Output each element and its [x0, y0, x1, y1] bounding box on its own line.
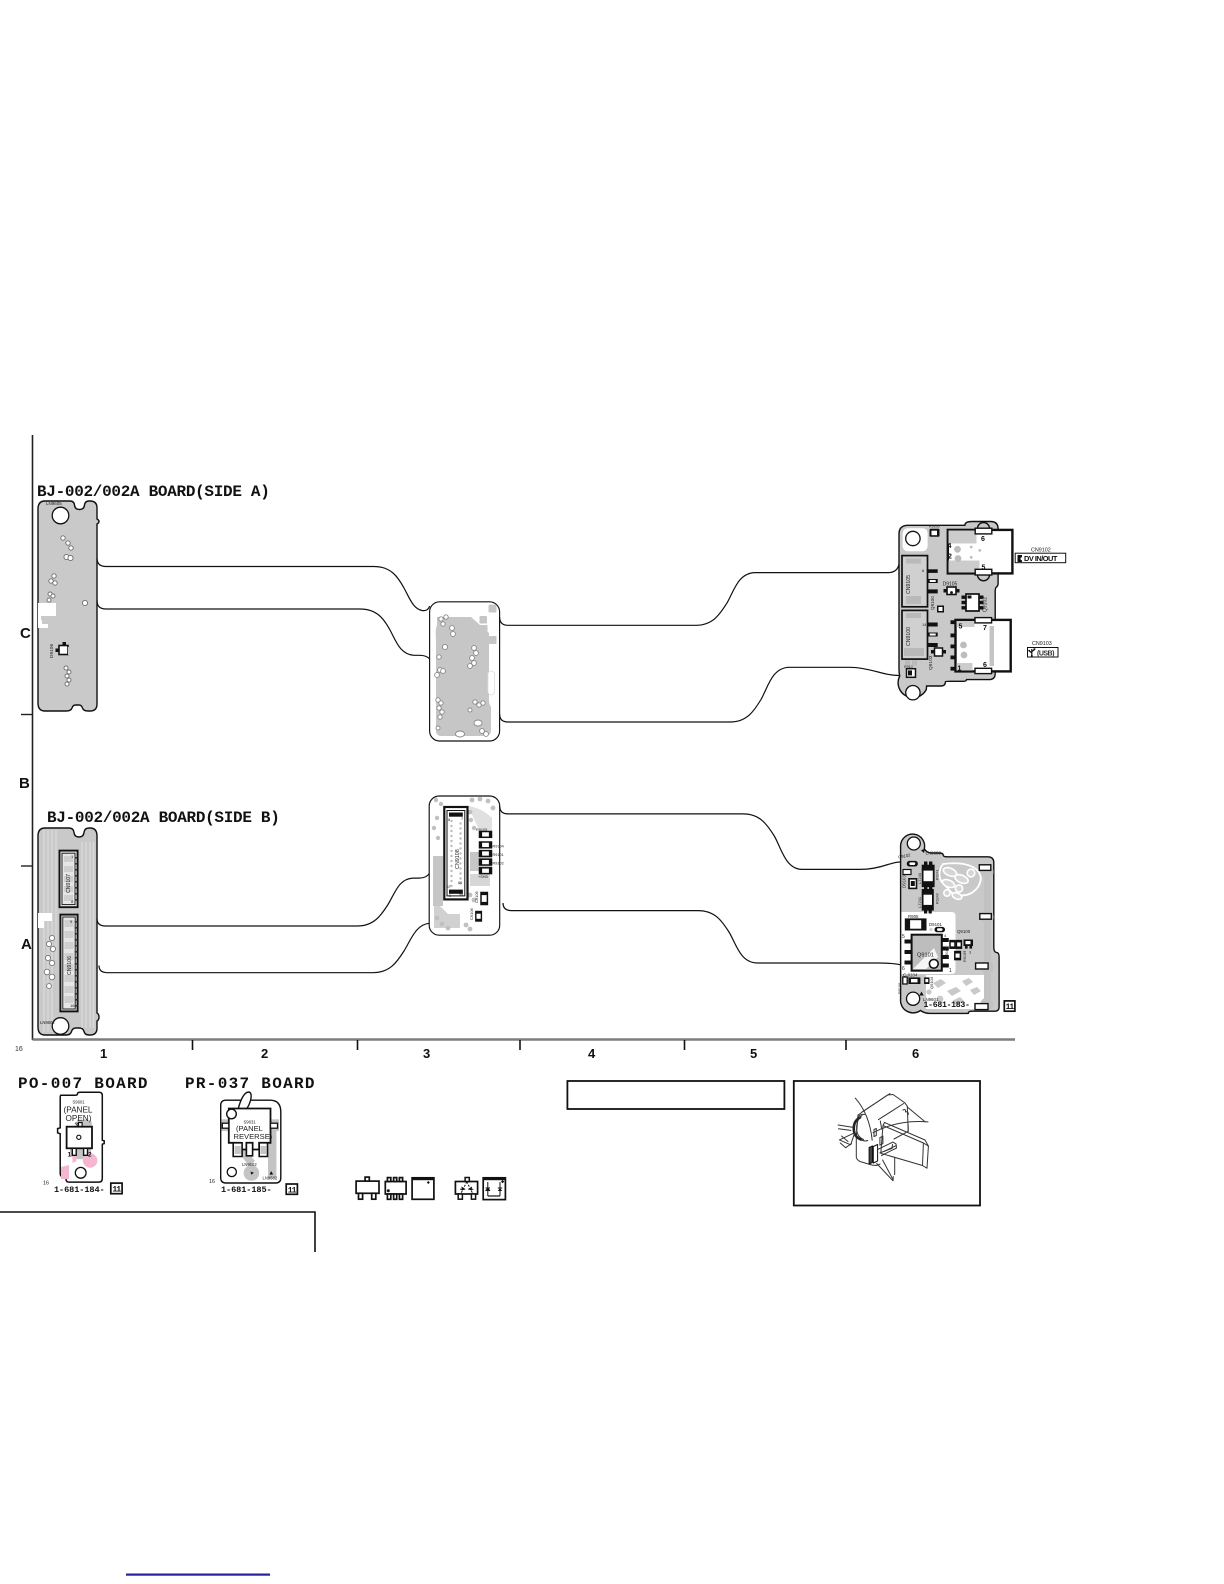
wire flex A bottom edge: [503, 903, 901, 965]
diode D9101: [929, 922, 945, 932]
lower body curve: [870, 1164, 880, 1165]
resistor R9106 chip: [903, 977, 907, 984]
vertical leader: [894, 1157, 896, 1174]
svg-text:Q9103: Q9103: [928, 655, 934, 670]
left wedge strap: [839, 1133, 854, 1145]
white zone around top mounting hole: [903, 528, 928, 551]
svg-text:Q9100: Q9100: [957, 929, 971, 934]
svg-text:57: 57: [447, 885, 451, 889]
white island mid left for components: [902, 912, 956, 974]
svg-text:5: 5: [902, 934, 905, 940]
svg-text:4: 4: [588, 1046, 596, 1061]
plated pad right 3: [976, 963, 989, 969]
wire flex B top edge: [97, 874, 429, 927]
svg-text:S9601: S9601: [73, 1100, 86, 1105]
PR-037 gray trace pin to pad: [237, 1147, 255, 1166]
svg-text:1: 1: [100, 1046, 107, 1061]
svg-text:C9105: C9105: [474, 890, 479, 903]
staple clamp: [878, 1142, 897, 1155]
switch side tab left: [222, 1123, 229, 1128]
capacitor C9104 body: [908, 977, 920, 984]
bottom ruler tick 4|5: [684, 1040, 686, 1050]
svg-text:PR-037 BOARD: PR-037 BOARD: [185, 1075, 316, 1093]
DV jack top mounting tab: [978, 523, 990, 529]
PO-007 gray trace from pin3: [77, 1120, 92, 1148]
gray pads row above bottom-left part: [905, 661, 910, 666]
DV jack bottom mounting tab: [978, 575, 990, 581]
svg-text:1: 1: [68, 1152, 72, 1159]
LCD panel slab: [881, 1126, 924, 1166]
svg-text:16: 16: [70, 1003, 75, 1008]
PR-037 gray band across: [222, 1119, 280, 1131]
left leader lines: [838, 1125, 852, 1127]
mounting hole LN9602: [52, 1018, 69, 1035]
IC Q9101: [902, 933, 952, 974]
svg-text:6: 6: [902, 966, 905, 972]
USB bottom tab: [975, 668, 992, 673]
wire flex C1 bottom edge: [97, 601, 430, 660]
PR-037 gray vertical trace right: [268, 1131, 276, 1179]
svg-text:BJ-002/002A BOARD(SIDE B): BJ-002/002A BOARD(SIDE B): [47, 809, 280, 827]
svg-text:1-681-185-: 1-681-185-: [221, 1185, 272, 1195]
svg-text:DV IN/OUT: DV IN/OUT: [1024, 554, 1058, 563]
CN9107 pin ticks: [75, 857, 78, 901]
svg-text:LN9682: LN9682: [263, 1176, 278, 1181]
CN9106 pin ticks: [75, 921, 78, 1007]
pads in bottom island: [926, 978, 981, 1005]
component R9100 top: [929, 525, 940, 537]
resistor R9105: [476, 828, 492, 837]
svg-text:11: 11: [288, 1187, 297, 1196]
connector CN9105: [902, 556, 938, 607]
resistor R9103: [480, 859, 504, 865]
label box USB: [1028, 648, 1059, 658]
resistor R9102: [478, 868, 492, 879]
board BJ-002 side B right section outline: [901, 834, 1000, 1013]
svg-text:CN9100: CN9100: [906, 627, 912, 646]
PO-007 hole: [75, 1167, 86, 1178]
switch legs with pads: [233, 1143, 242, 1157]
plated pad right 4: [975, 1004, 988, 1010]
revision box 11 on side B right: [1004, 1001, 1015, 1011]
centre section copper pour: [436, 617, 491, 736]
label LN9600: [921, 849, 941, 856]
svg-text:R905: R905: [908, 914, 919, 919]
transistor D9106: [49, 642, 74, 658]
capacitor C9105: [474, 890, 487, 904]
board BJ-002 side A centre section outline: [430, 602, 500, 741]
svg-text:CN9108: CN9108: [455, 849, 461, 869]
svg-text:16: 16: [15, 1046, 23, 1053]
transistor Q9104: [924, 977, 929, 984]
PO-007 pink pad circle: [83, 1153, 98, 1168]
bottom ruler tick 1|2: [192, 1040, 194, 1050]
svg-text:R910: R910: [904, 665, 913, 669]
svg-text:6: 6: [981, 536, 985, 543]
svg-text:2: 2: [948, 554, 952, 561]
left ruler tick C/B: [21, 714, 33, 716]
wire flex C2 top edge: [500, 564, 899, 625]
resistor R9104: [480, 842, 504, 849]
board A-left inner step pad: [41, 616, 49, 624]
frame corner line bottom-left: [0, 1212, 315, 1252]
svg-text:11: 11: [112, 1186, 121, 1195]
copper clearance outline top right island: [939, 863, 980, 895]
PR-037 switch lever petal: [238, 1092, 251, 1113]
svg-text:R9240: R9240: [936, 893, 940, 904]
svg-text:R9100: R9100: [929, 525, 940, 529]
connector CN9108: [444, 807, 467, 899]
switch pin 1: [72, 1148, 76, 1155]
PO-007 pink corner region: [61, 1165, 69, 1179]
svg-text:11: 11: [1006, 1003, 1015, 1012]
pads in top right island: [941, 866, 975, 901]
footer blue rule: [126, 1574, 270, 1576]
svg-text:6: 6: [912, 1046, 919, 1061]
svg-text:CN9105: CN9105: [906, 575, 912, 594]
wire flex C1 top edge: [97, 558, 430, 611]
connector bracket dark bars: [869, 1146, 872, 1164]
diode D9103: [902, 875, 917, 889]
svg-text:L7240: L7240: [917, 872, 922, 884]
spare note rectangle: [567, 1081, 784, 1109]
svg-text:CN9102: CN9102: [1031, 548, 1051, 554]
package symbol SOT-23: [356, 1177, 379, 1199]
capacitor C9106: [469, 907, 481, 921]
figure box: [794, 1081, 980, 1206]
svg-text:14: 14: [922, 622, 927, 627]
white cutout left edge side B board: [38, 913, 52, 928]
transistor Q9102: [962, 594, 989, 612]
svg-text:R9106: R9106: [898, 983, 902, 994]
long right arc: [873, 1122, 928, 1133]
mounting hole bottom: [906, 686, 920, 700]
svg-text:CN9103: CN9103: [1032, 641, 1052, 647]
revision box 11 PR-037: [286, 1184, 297, 1194]
body top face inner lines: [862, 1094, 890, 1113]
lens barrel thick C: [854, 1118, 861, 1140]
board BJ-002 side B centre section outline: [429, 796, 500, 935]
svg-text:58: 58: [459, 893, 463, 897]
wire flex C2 bottom edge: [500, 667, 899, 722]
small part bottom left of right board: [904, 665, 916, 677]
inductor L7240: [917, 862, 940, 891]
mounting hole top left of side B right: [907, 837, 920, 850]
mounting hole top: [906, 531, 920, 545]
white strip under DV connector: [947, 543, 995, 561]
connector CN9103 USB jack outline: [951, 618, 1011, 674]
switch pin 2: [84, 1148, 88, 1155]
package symbol square pkg: [412, 1178, 434, 1200]
vias on side B left board: [44, 935, 55, 988]
scattered pads centre B: [432, 797, 496, 932]
vias on board A-left: [47, 536, 88, 686]
resistor R9107 chip: [955, 951, 967, 962]
board BJ-002 side A right section outline: [898, 522, 998, 698]
svg-text:2: 2: [261, 1046, 268, 1061]
bottom pointer triangle: [877, 1164, 894, 1181]
camera body outline: [858, 1095, 908, 1132]
svg-text:D9101: D9101: [929, 922, 942, 927]
PR-037 hole: [227, 1167, 236, 1176]
hinge line to panel: [907, 1107, 925, 1122]
svg-text:9: 9: [449, 894, 451, 898]
switch side tab right: [271, 1123, 278, 1128]
connector CN9106: [60, 915, 77, 1012]
bottom ruler tick 3|4: [519, 1040, 521, 1050]
bottom ruler tick 2|3: [357, 1040, 359, 1050]
transistor Q9103: [928, 648, 946, 670]
package symbol dual diode box: [481, 1178, 506, 1200]
svg-text:R9101: R9101: [493, 853, 504, 857]
svg-text:PO-007 BOARD: PO-007 BOARD: [18, 1075, 149, 1093]
swing arc: [855, 1098, 872, 1140]
svg-text:R9102: R9102: [493, 862, 504, 866]
svg-text:LN9682: LN9682: [242, 1162, 257, 1167]
package symbol dual diode SOT: [455, 1178, 477, 1200]
svg-text:Q9102: Q9102: [983, 597, 989, 612]
svg-text:3: 3: [969, 951, 971, 955]
board A-left white step cutout: [38, 603, 56, 628]
PO-007 gray blob under switch pins: [70, 1148, 91, 1159]
svg-text:CN9106: CN9106: [67, 956, 73, 975]
svg-text:1-681-184-: 1-681-184-: [54, 1185, 105, 1195]
svg-text:A: A: [21, 936, 32, 953]
svg-text:5: 5: [959, 624, 963, 631]
USB pin stubs: [951, 620, 957, 624]
centre B copper pour patches: [433, 856, 443, 906]
svg-text:Q9101: Q9101: [917, 953, 934, 959]
svg-text:LN9602: LN9602: [40, 1020, 55, 1025]
inductor L7241: [917, 890, 940, 914]
svg-text:LN9600: LN9600: [926, 851, 942, 856]
svg-text:R9241: R9241: [936, 869, 940, 880]
copper striping on side B left board: [44, 830, 94, 1032]
board PO-007 outline: [58, 1092, 105, 1182]
connector CN9102 DV jack outline: [948, 523, 1013, 581]
svg-text:2: 2: [88, 1152, 92, 1159]
svg-text:C9103: C9103: [945, 947, 949, 958]
USB top tab: [975, 618, 992, 623]
svg-text:4: 4: [948, 543, 952, 550]
plated pad right 2: [980, 914, 992, 920]
svg-text:5: 5: [750, 1046, 757, 1061]
switch S9631 body: [229, 1109, 271, 1150]
transistor Q9100b: [957, 929, 973, 955]
bottom ruler tick 5|6: [845, 1040, 847, 1050]
mounting hole LN9605: [52, 507, 69, 524]
copper square pads top right: [489, 605, 497, 613]
svg-text:R9107: R9107: [963, 951, 967, 962]
svg-text:1-681-183-: 1-681-183-: [924, 1001, 970, 1010]
wire flex A top edge (centre B to right B): [500, 806, 901, 869]
svg-text:R9104: R9104: [493, 845, 504, 849]
svg-text:Q9104: Q9104: [929, 976, 934, 989]
plated pad right 1: [979, 865, 991, 871]
transistor Q9100: [930, 596, 944, 613]
svg-text:16: 16: [43, 1181, 49, 1187]
svg-text:D9103: D9103: [902, 875, 907, 888]
capacitor C9102 body: [907, 861, 918, 867]
PO-007 pink trace pin1: [73, 1155, 77, 1163]
svg-text:7: 7: [461, 817, 463, 821]
svg-text:C: C: [20, 625, 31, 642]
svg-text:BJ-002/002A BOARD(SIDE A): BJ-002/002A BOARD(SIDE A): [37, 483, 270, 501]
svg-text:+SHD: +SHD: [478, 875, 488, 879]
resistor R9101: [480, 851, 504, 857]
board BJ-002 side A left section outline: [38, 501, 99, 711]
svg-text:1: 1: [958, 666, 962, 673]
label LN9601: [919, 992, 939, 1003]
svg-text:7: 7: [983, 625, 987, 632]
svg-text:B: B: [19, 775, 30, 792]
revision box 11 PO-007: [111, 1183, 122, 1194]
capacitor pair C9103: [945, 941, 961, 958]
small chip below C9102: [903, 870, 911, 875]
svg-text:60: 60: [458, 881, 462, 885]
wire flex B bottom edge: [99, 923, 429, 972]
svg-text:REVERSE): REVERSE): [234, 1132, 273, 1141]
svg-text:OPEN): OPEN): [66, 1114, 92, 1123]
package symbol SOT-26: [385, 1178, 406, 1200]
resistor R9105b: [906, 914, 926, 930]
vias on centre section: [435, 615, 489, 737]
svg-text:LN9605: LN9605: [46, 501, 62, 506]
centre tongue of switch: [246, 1143, 252, 1156]
switch body corner circle: [227, 1109, 237, 1119]
svg-text:(USB): (USB): [1037, 650, 1054, 657]
left margin ruler line: [32, 435, 34, 1040]
white slot pad right side: [488, 671, 495, 695]
gray trace bar right side with round pads: [984, 868, 991, 1006]
svg-text:CN9107: CN9107: [66, 874, 72, 893]
camcorder sketch: [838, 1094, 928, 1181]
bottom ruler line: [33, 1038, 1016, 1041]
board PR-037 outline: [221, 1100, 281, 1183]
connector CN9100: [902, 610, 938, 659]
svg-text:3: 3: [423, 1046, 430, 1061]
svg-text:C9106: C9106: [469, 907, 474, 920]
diode D9105: [943, 582, 960, 595]
svg-text:Q9100: Q9100: [930, 596, 935, 610]
mounting hole bottom left of side B right: [907, 992, 920, 1005]
svg-text:D9106: D9106: [49, 644, 55, 658]
left ruler tick B/A: [21, 865, 33, 867]
svg-text:1: 1: [949, 968, 952, 974]
svg-text:L7241: L7241: [917, 896, 922, 908]
svg-text:8: 8: [448, 818, 450, 822]
switch S9601 body: [67, 1127, 92, 1149]
PR-037 gray big pad circle: [244, 1165, 260, 1181]
label box DV IN/OUT: [1015, 553, 1065, 563]
svg-text:16: 16: [209, 1179, 215, 1185]
white island bottom with pads: [926, 975, 988, 1009]
board BJ-002 side B left section outline: [38, 828, 99, 1035]
connector CN9107: [60, 851, 78, 908]
jack cover small parallelograms: [874, 1129, 876, 1137]
